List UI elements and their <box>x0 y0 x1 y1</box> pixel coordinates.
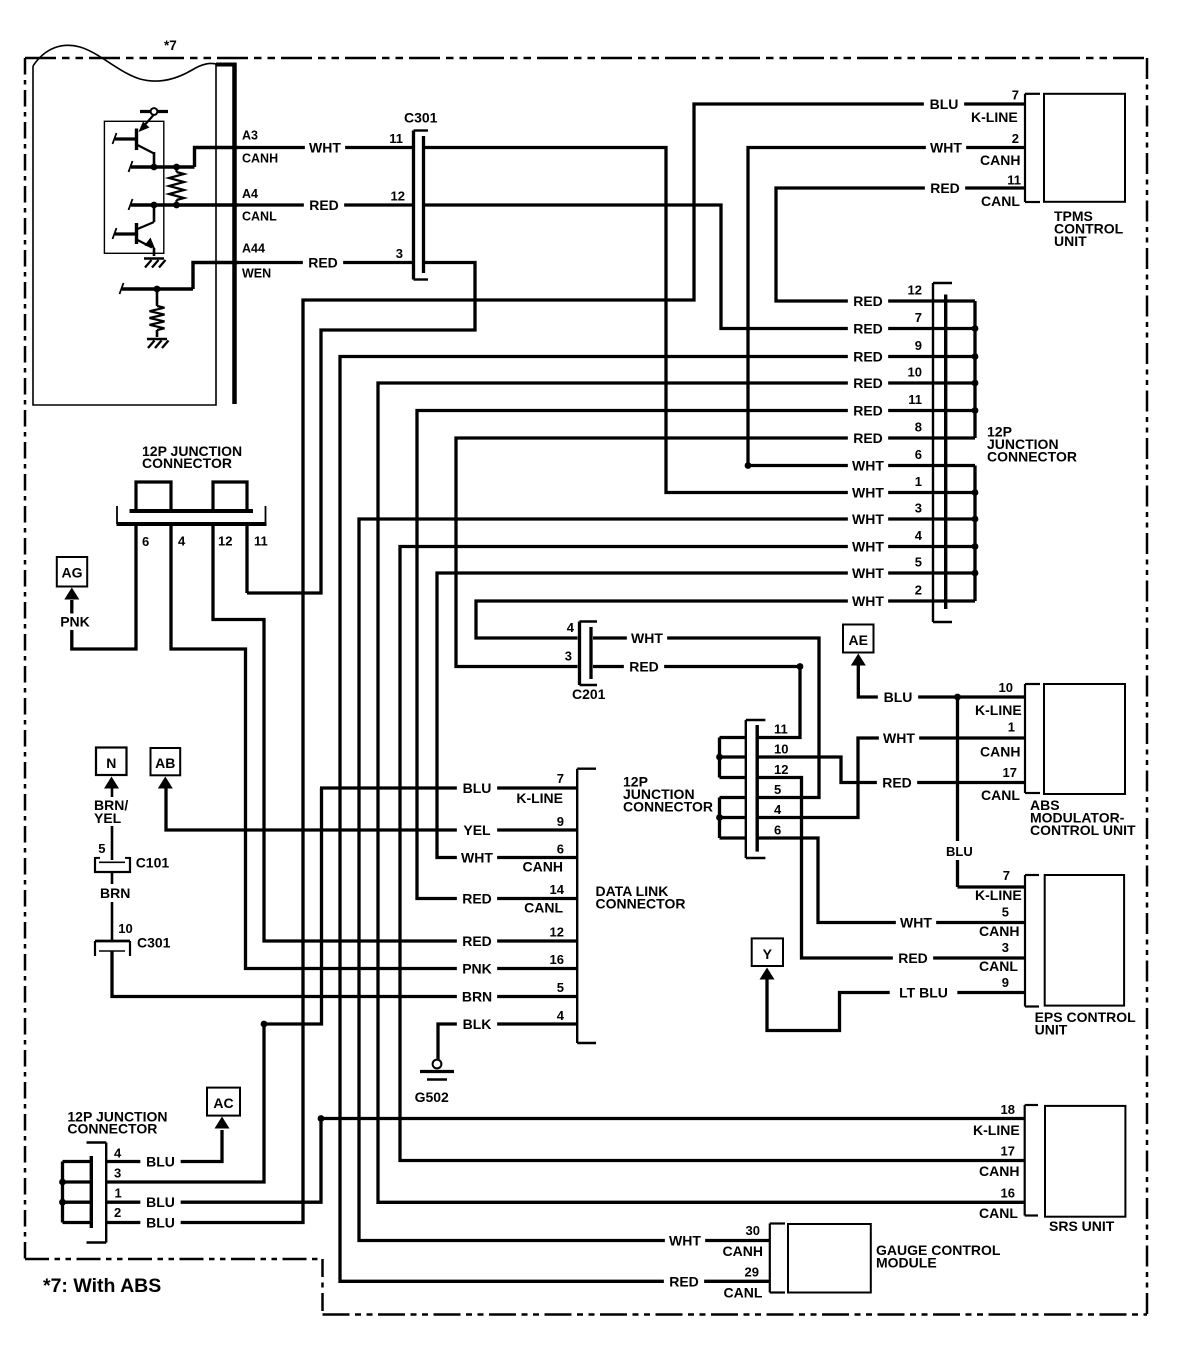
wire color WHT <box>848 485 888 501</box>
svg-text:12: 12 <box>908 283 922 298</box>
svg-text:3: 3 <box>915 501 922 516</box>
svg-text:6: 6 <box>915 447 922 462</box>
svg-text:RED: RED <box>853 349 883 365</box>
svg-text:YEL: YEL <box>94 810 122 826</box>
svg-text:9: 9 <box>557 814 564 829</box>
svg-text:17: 17 <box>1003 765 1017 780</box>
svg-text:BLU: BLU <box>146 1215 175 1231</box>
connector box AC <box>207 1088 240 1116</box>
transistor Q2 (NPN) <box>153 205 156 222</box>
wire WHT: 12P junction pin 4 to SRS CANH <box>400 547 1025 1161</box>
wire color RED <box>848 430 888 446</box>
svg-text:BRN: BRN <box>462 989 492 1005</box>
svg-text:11: 11 <box>389 131 403 146</box>
wire RED CANL: TPMS pin11 down to 12P junction pin 12 <box>776 188 1025 301</box>
svg-text:K-LINE: K-LINE <box>971 109 1018 125</box>
bus junction dot <box>972 489 979 496</box>
wire color WHT (A3) <box>305 140 345 156</box>
svg-text:CANH: CANH <box>242 152 278 166</box>
connector bar upper <box>130 509 254 513</box>
svg-text:3: 3 <box>1002 940 1009 955</box>
svg-text:CANL: CANL <box>981 787 1020 803</box>
wire: junction pin 4 down to DLC pin 16 (PNK row) <box>171 524 577 969</box>
12P junction connector internal bus (RED group) <box>973 301 976 438</box>
wire color RED <box>848 375 888 391</box>
wire RED: 12P junction pin 10 to SRS CANL <box>378 383 1025 1202</box>
svg-text:CANH: CANH <box>979 923 1019 939</box>
svg-text:CONNECTOR: CONNECTOR <box>142 455 232 471</box>
wire to C301 <box>111 902 114 941</box>
internal bus (CANH group pins 5,4,6) <box>718 798 721 839</box>
svg-text:6: 6 <box>557 842 564 857</box>
bus junction dot <box>972 380 979 387</box>
svg-text:4: 4 <box>557 1008 565 1023</box>
svg-text:30: 30 <box>746 1223 760 1238</box>
svg-text:AC: AC <box>213 1095 233 1111</box>
wire A4 CANL RED: ECM to C301 to 12P junction pin 7 <box>238 203 412 206</box>
data link connector bracket <box>576 769 578 1043</box>
wire RED: 12P junction pin 9 to gauge CANL <box>340 357 975 1282</box>
svg-text:WHT: WHT <box>852 458 884 474</box>
dash-dot border step <box>321 1259 324 1315</box>
wire color RED <box>893 950 933 966</box>
bus dot <box>716 814 723 821</box>
internal link pins 6-4 <box>136 482 171 511</box>
svg-text:6: 6 <box>774 823 781 838</box>
svg-text:AE: AE <box>848 632 867 648</box>
bus junction dot <box>972 407 979 414</box>
svg-text:G502: G502 <box>415 1089 449 1105</box>
connector C101 <box>99 861 125 863</box>
TPMS control unit box <box>1044 94 1125 202</box>
wire YEL: AB to DLC pin 9 <box>166 789 577 831</box>
wire color RED (A44) <box>303 255 343 271</box>
wire color WHT <box>848 593 888 609</box>
svg-text:4: 4 <box>915 528 923 543</box>
svg-text:CANL: CANL <box>524 900 563 916</box>
wire to A44 pin <box>193 263 238 290</box>
wire: bottom junction pin 1 to SRS K-LINE <box>106 1119 1025 1203</box>
svg-text:5: 5 <box>98 841 105 856</box>
wire color WHT <box>926 140 966 156</box>
svg-text:CONNECTOR: CONNECTOR <box>67 1121 157 1137</box>
svg-text:RED: RED <box>462 933 492 949</box>
svg-text:12: 12 <box>774 762 788 777</box>
wire color RED <box>848 293 888 309</box>
svg-text:WHT: WHT <box>852 511 884 527</box>
arrow to AB <box>158 777 173 789</box>
wire WHT: 12P junction pin 2 to C201 pin 4 <box>476 601 975 638</box>
bus dot <box>59 1179 66 1186</box>
svg-text:CONTROL UNIT: CONTROL UNIT <box>1030 822 1136 838</box>
node: CANH internal rail <box>131 165 195 168</box>
resistor (WEN pulldown) <box>156 289 159 306</box>
svg-text:10: 10 <box>774 742 788 757</box>
wire: junction pin 11 right (to WEN trunk) <box>245 524 248 593</box>
wire color RED <box>877 775 917 791</box>
internal link pins 12-11 <box>213 482 247 511</box>
svg-text:6: 6 <box>142 534 149 549</box>
svg-text:WHT: WHT <box>900 915 932 931</box>
svg-text:K-LINE: K-LINE <box>516 790 563 806</box>
wire color WHT <box>848 565 888 581</box>
wire RED: 12P junction pin 11 to DLC pin 14 CANL <box>417 411 975 899</box>
connector bar lower <box>117 522 267 526</box>
svg-text:RED: RED <box>629 659 659 675</box>
svg-text:7: 7 <box>915 310 922 325</box>
TPMS control unit bracket <box>1024 94 1026 202</box>
gauge control module box <box>788 1224 871 1293</box>
transistor sub-circuit box <box>104 121 163 253</box>
WEN input rail <box>122 287 193 290</box>
svg-text:BRN: BRN <box>100 885 130 901</box>
svg-text:2: 2 <box>114 1205 121 1220</box>
svg-text:CONNECTOR: CONNECTOR <box>623 799 713 815</box>
bar end tick <box>265 506 267 524</box>
wire: junction pin 12 down to DLC pin 12 (RED row) <box>213 524 577 941</box>
wire LT BLU: EPS pin 9 <box>767 980 1025 1031</box>
wire to C101 <box>111 826 114 860</box>
wire color WHT <box>665 1233 705 1249</box>
node: CANL internal rail <box>131 203 238 206</box>
svg-text:RED: RED <box>853 403 883 419</box>
splice dot <box>797 663 804 670</box>
svg-text:CANH: CANH <box>980 152 1020 168</box>
wire color LT BLU <box>890 985 958 1001</box>
wire BRN: C301 to DLC pin 5 <box>112 951 577 997</box>
SRS unit bracket <box>1024 1105 1026 1216</box>
svg-text:RED: RED <box>308 255 338 271</box>
connector box AG <box>57 557 87 587</box>
ABS modulator-control unit bracket <box>1024 684 1026 793</box>
svg-text:RED: RED <box>930 180 960 196</box>
bus junction dot <box>972 516 979 523</box>
svg-text:MODULE: MODULE <box>876 1255 937 1271</box>
wire: middle junction pin 12 to EPS CANL <box>758 778 1025 959</box>
connector box AE <box>843 625 874 653</box>
svg-text:RED: RED <box>853 430 883 446</box>
svg-text:*7: *7 <box>164 38 177 53</box>
svg-text:BLU: BLU <box>146 1194 175 1210</box>
svg-text:Y: Y <box>763 946 773 962</box>
svg-text:7: 7 <box>1003 868 1010 883</box>
wire BLU: DLC pin 7 K-line down to splice <box>320 786 577 789</box>
wire color BLU <box>924 96 964 112</box>
svg-text:2: 2 <box>1012 131 1019 146</box>
svg-text:WHT: WHT <box>852 593 884 609</box>
svg-text:3: 3 <box>114 1166 121 1181</box>
svg-text:4: 4 <box>178 534 186 549</box>
wire color RED <box>848 349 888 365</box>
svg-text:29: 29 <box>745 1265 759 1280</box>
svg-text:WHT: WHT <box>852 565 884 581</box>
svg-text:1: 1 <box>1008 720 1015 735</box>
bus junction dot <box>972 325 979 332</box>
svg-text:CANL: CANL <box>979 958 1018 974</box>
ground (WEN resistor) <box>147 338 167 341</box>
svg-text:11: 11 <box>1007 173 1021 188</box>
svg-text:CONNECTOR: CONNECTOR <box>987 449 1077 465</box>
wire color RED (A4) <box>304 197 344 213</box>
wire RED: 12P junction pin 8 to C201 pin 3 <box>456 438 975 667</box>
internal bus (CANL group pins 11,10,12) <box>718 738 721 778</box>
wire color BLU <box>140 1215 180 1231</box>
wire color WHT <box>879 730 919 746</box>
svg-text:SRS UNIT: SRS UNIT <box>1049 1218 1115 1234</box>
wire color BLU <box>140 1194 180 1210</box>
svg-text:12: 12 <box>218 534 232 549</box>
svg-text:K-LINE: K-LINE <box>973 1122 1020 1138</box>
ground (Q2 emitter) <box>144 257 164 260</box>
svg-text:9: 9 <box>915 338 922 353</box>
svg-text:17: 17 <box>1001 1144 1015 1159</box>
svg-text:N: N <box>106 755 116 771</box>
ECM box outline with torn-edge wavy top <box>33 45 218 81</box>
12P junction connector (middle) bracket <box>745 720 747 858</box>
svg-text:WHT: WHT <box>852 485 884 501</box>
svg-text:C301: C301 <box>404 110 438 126</box>
svg-text:4: 4 <box>114 1146 122 1161</box>
svg-text:4: 4 <box>567 620 575 635</box>
svg-text:RED: RED <box>853 375 883 391</box>
connector C301 (left) <box>95 940 130 943</box>
wire color WHT <box>848 539 888 555</box>
dash-dot border left <box>24 58 27 1259</box>
svg-text:10: 10 <box>118 921 132 936</box>
svg-text:RED: RED <box>853 293 883 309</box>
svg-text:WHT: WHT <box>309 140 341 156</box>
wire WHT: 12P junction pin 5 to DLC pin 6 CANH <box>437 573 975 858</box>
svg-text:11: 11 <box>774 722 788 737</box>
svg-text:WHT: WHT <box>883 730 915 746</box>
wire BLU: bottom junction pin 4 to AC <box>106 1130 222 1162</box>
bus junction dot <box>972 353 979 360</box>
wire color WHT <box>457 850 497 866</box>
svg-text:LT BLU: LT BLU <box>899 985 948 1001</box>
svg-text:AG: AG <box>62 565 83 581</box>
svg-text:BLU: BLU <box>463 780 492 796</box>
wire color WHT <box>896 915 936 931</box>
svg-text:CANH: CANH <box>979 1163 1019 1179</box>
svg-text:K-LINE: K-LINE <box>975 887 1022 903</box>
wire color RED <box>848 403 888 419</box>
gauge control module bracket <box>769 1224 771 1293</box>
wire color RED <box>457 933 497 949</box>
wire color BLU <box>140 1154 180 1170</box>
svg-text:11: 11 <box>908 392 922 407</box>
svg-text:YEL: YEL <box>463 822 491 838</box>
svg-text:BLU: BLU <box>146 1154 175 1170</box>
svg-text:5: 5 <box>1002 905 1009 920</box>
svg-text:WHT: WHT <box>631 630 663 646</box>
12P junction connector internal bus (WHT group) <box>973 466 976 602</box>
wire A44 WEN RED: ECM to C301 then down-left to left 12P junction pin 11 <box>238 261 412 264</box>
connector C201 <box>578 622 581 686</box>
connector box N <box>96 748 127 776</box>
wire color WHT <box>848 458 888 474</box>
wire BLK: DLC pin 4 to ground G502 <box>438 1024 577 1059</box>
svg-text:BLU: BLU <box>884 689 913 705</box>
svg-text:C201: C201 <box>572 686 606 702</box>
bar end tick <box>116 506 118 524</box>
wire color BLK <box>457 1016 497 1032</box>
svg-text:RED: RED <box>882 775 912 791</box>
svg-text:16: 16 <box>550 952 564 967</box>
svg-text:A44: A44 <box>242 242 265 256</box>
svg-text:C301: C301 <box>137 935 171 951</box>
arrow to Y <box>760 968 775 980</box>
svg-text:5: 5 <box>915 555 922 570</box>
svg-text:12: 12 <box>391 189 405 204</box>
wire color RED <box>848 321 888 337</box>
arrow to AE <box>851 654 866 666</box>
svg-text:CANH: CANH <box>723 1243 763 1259</box>
power terminal <box>140 110 168 113</box>
svg-text:CANH: CANH <box>523 859 563 875</box>
wire WHT: C201 pin 4 to middle 12P junction pin 5 <box>593 638 819 798</box>
svg-text:RED: RED <box>669 1273 699 1289</box>
svg-text:WHT: WHT <box>930 140 962 156</box>
wire color RED <box>457 891 497 907</box>
svg-text:K-LINE: K-LINE <box>975 702 1022 718</box>
wire: splice down to bottom junction pin 3 <box>106 1024 264 1182</box>
svg-text:A4: A4 <box>242 187 258 201</box>
arrow to AG <box>64 588 79 600</box>
svg-text:WHT: WHT <box>461 850 493 866</box>
svg-text:2: 2 <box>915 583 922 598</box>
junction dot <box>745 462 752 469</box>
svg-text:3: 3 <box>396 246 403 261</box>
wire WHT CANH: TPMS pin2 down to 12P junction pin 6 <box>748 148 1025 466</box>
svg-text:CANL: CANL <box>979 1205 1018 1221</box>
svg-text:WHT: WHT <box>669 1233 701 1249</box>
wire color PNK <box>55 614 95 630</box>
svg-text:RED: RED <box>898 950 928 966</box>
wire BLU K-LINE: TPMS pin7 down to bottom junction pin 2 <box>106 104 1025 1223</box>
bracket <box>105 1143 107 1243</box>
wire A3 CANH WHT: ECM to C301 to 12P junction pin 1 <box>238 146 412 149</box>
svg-text:UNIT: UNIT <box>1035 1022 1068 1038</box>
svg-text:*7: With ABS: *7: With ABS <box>43 1275 161 1297</box>
svg-text:BLK: BLK <box>463 1016 492 1032</box>
svg-text:WHT: WHT <box>852 539 884 555</box>
wire color RED <box>624 659 664 675</box>
wire BRN <box>111 872 114 884</box>
SRS unit box <box>1045 1106 1125 1217</box>
wire color RED <box>664 1273 704 1289</box>
bus dot <box>59 1199 66 1206</box>
wire WHT: 12P junction pin 3 to gauge CANH <box>359 519 975 1241</box>
svg-text:WEN: WEN <box>242 267 271 281</box>
svg-text:9: 9 <box>1002 975 1009 990</box>
K-line junction dot <box>954 694 961 701</box>
svg-text:BLU: BLU <box>946 844 973 859</box>
svg-text:AB: AB <box>155 755 175 771</box>
wire color PNK <box>457 961 497 977</box>
wire color YEL <box>457 822 497 838</box>
svg-text:1: 1 <box>115 1186 122 1201</box>
wire color WHT <box>848 511 888 527</box>
arrow to AC <box>215 1117 230 1129</box>
svg-text:CANL: CANL <box>981 193 1020 209</box>
resistor (bus termination) <box>175 167 177 172</box>
wire color BLU <box>457 780 497 796</box>
wire color BLU <box>878 689 918 705</box>
svg-text:18: 18 <box>1001 1102 1015 1117</box>
svg-text:RED: RED <box>853 321 883 337</box>
connector box Y <box>752 938 783 966</box>
wire color BLU (vertical) <box>941 842 979 858</box>
bus junction dot <box>972 570 979 577</box>
ABS modulator-control unit box <box>1044 684 1125 794</box>
svg-text:10: 10 <box>908 365 922 380</box>
dash-dot border top <box>25 57 1147 60</box>
internal bus <box>61 1162 64 1223</box>
ground G502 <box>433 1060 442 1069</box>
svg-text:CANL: CANL <box>242 210 277 224</box>
svg-text:CANH: CANH <box>980 744 1020 760</box>
svg-text:4: 4 <box>774 802 782 817</box>
svg-text:7: 7 <box>557 771 564 786</box>
wire color WHT <box>627 630 667 646</box>
svg-text:CANL: CANL <box>724 1285 763 1301</box>
svg-text:14: 14 <box>550 882 565 897</box>
svg-text:5: 5 <box>557 980 564 995</box>
svg-text:C101: C101 <box>136 855 170 871</box>
svg-text:UNIT: UNIT <box>1054 233 1087 249</box>
svg-text:3: 3 <box>565 649 572 664</box>
EPS control unit box <box>1045 875 1124 1006</box>
ECM connector bar <box>232 63 237 404</box>
svg-text:7: 7 <box>1012 88 1019 103</box>
wire: middle junction pin 6 to EPS CANH <box>758 838 1025 923</box>
svg-text:10: 10 <box>999 680 1013 695</box>
svg-text:5: 5 <box>774 782 781 797</box>
wire to A3 pin <box>195 148 239 168</box>
svg-text:PNK: PNK <box>462 961 492 977</box>
wire color BRN <box>457 989 497 1005</box>
bus junction dot <box>972 543 979 550</box>
dash-dot border bottom <box>323 1313 1148 1316</box>
svg-text:RED: RED <box>462 891 492 907</box>
svg-text:RED: RED <box>309 197 339 213</box>
EPS control unit bracket <box>1024 875 1026 1007</box>
wire RED: C201 pin 3 to middle 12P junction pin 11 <box>593 667 800 738</box>
wire color RED <box>925 180 965 196</box>
svg-text:PNK: PNK <box>60 614 90 630</box>
svg-text:11: 11 <box>254 534 268 549</box>
wire BLU: K-line to ABS pin 10 and EPS pin 7 <box>858 666 1025 698</box>
dash-dot border right <box>1146 58 1149 1315</box>
bus dot <box>716 754 723 761</box>
dash-dot border bottom-left <box>25 1258 323 1261</box>
svg-text:CONNECTOR: CONNECTOR <box>596 896 686 912</box>
splice dot <box>261 1021 268 1028</box>
svg-text:16: 16 <box>1001 1186 1015 1201</box>
wire: junction pin 6 to AG (PNK) <box>72 524 136 649</box>
connector C301 (engine harness) <box>412 131 415 280</box>
svg-text:A3: A3 <box>242 129 258 143</box>
connector box AB <box>151 748 181 775</box>
svg-text:BLU: BLU <box>930 96 959 112</box>
svg-text:8: 8 <box>915 420 922 435</box>
splice dot <box>318 1115 325 1122</box>
svg-text:12: 12 <box>550 925 564 940</box>
wire: middle junction pin 10 to ABS CANL <box>758 757 1025 783</box>
svg-text:1: 1 <box>915 474 922 489</box>
wire: middle junction pin 4 to ABS CANH <box>758 738 1025 818</box>
transistor Q1 (PNP) <box>135 129 138 151</box>
